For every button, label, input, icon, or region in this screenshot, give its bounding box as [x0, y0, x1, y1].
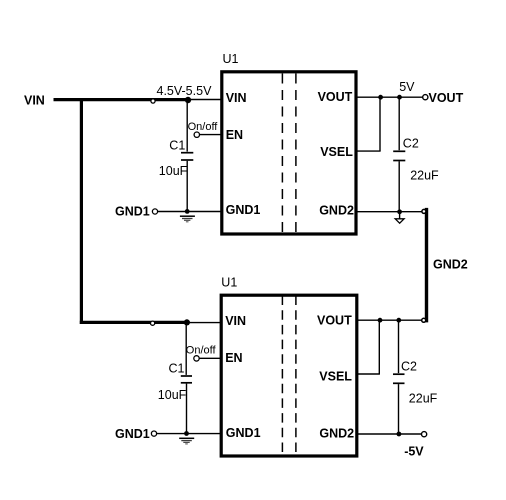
wire VOUT node down to C2 (bottom): [398, 320, 400, 373]
junction dot GND2 (top): [397, 209, 402, 214]
svg-text:VIN: VIN: [226, 91, 247, 105]
wire VOUT node down to C2 (top): [398, 97, 400, 150]
connector circle on VIN wire (bottom): [151, 321, 155, 325]
junction dot VOUT-C2 (bottom): [396, 318, 401, 323]
connector circle on VIN wire (top): [151, 99, 155, 103]
svg-text:VIN: VIN: [225, 314, 246, 328]
capacitor C2 (top) plates: [393, 150, 405, 152]
svg-text:10uF: 10uF: [158, 388, 187, 402]
dashed internal line 1 (top U1): [281, 74, 283, 233]
svg-text:-5V: -5V: [404, 444, 424, 458]
svg-text:4.5V-5.5V: 4.5V-5.5V: [157, 84, 213, 98]
capacitor C2 (bottom) plates: [393, 373, 405, 375]
svg-text:C1: C1: [169, 361, 185, 375]
svg-text:GND1: GND1: [115, 427, 150, 441]
connector circle GND2 top terminal: [422, 209, 426, 213]
ground (earth symbol, bottom C1): [179, 438, 194, 444]
ground (signal-ground triangle, top): [399, 214, 401, 219]
dashed internal line 1 (bottom U1): [281, 296, 283, 455]
junction dot VOUT-VSEL (bottom): [378, 318, 383, 323]
wire GND1 (bottom): [157, 433, 221, 435]
wire junction to VIN pin (top): [188, 99, 221, 101]
svg-text:VOUT: VOUT: [318, 90, 353, 104]
svg-text:GND2: GND2: [433, 258, 468, 272]
op-amp U1 (bottom regulator IC box): [221, 295, 357, 456]
wire VOUT pin (bottom): [357, 319, 422, 321]
wire VIN thick vertical trunk: [80, 98, 83, 324]
svg-text:GND2: GND2: [319, 203, 354, 217]
wire C1 to GND1 (bottom): [186, 384, 188, 434]
wire GND2 pin (top): [356, 211, 423, 213]
svg-text:GND1: GND1: [115, 204, 150, 218]
connector circle GND2 bottom terminal: [422, 318, 426, 322]
svg-text:On/off: On/off: [186, 345, 217, 357]
svg-text:10uF: 10uF: [159, 164, 188, 178]
wire VSEL riser to VOUT (top): [379, 97, 381, 151]
wire VSEL pin (top): [356, 150, 381, 152]
wire GND1 (top): [158, 211, 221, 213]
svg-text:GND1: GND1: [226, 426, 261, 440]
wire GND2 pin (bottom): [357, 433, 422, 435]
node B junction dot VIN (bottom): [184, 319, 190, 325]
svg-text:GND2: GND2: [319, 426, 354, 440]
wire VIN node down to C1 (bottom): [185, 322, 187, 375]
svg-text:VOUT: VOUT: [317, 314, 352, 328]
connector circle GND1 (bottom): [151, 431, 156, 436]
connector circle VOUT (top): [423, 95, 428, 100]
wire GND2 thick vertical interconnect: [425, 208, 428, 323]
junction dot VOUT-C2 (top): [397, 95, 402, 100]
svg-text:22uF: 22uF: [409, 391, 438, 405]
wire VSEL riser to VOUT (bottom): [378, 320, 380, 374]
connector circle EN (top): [194, 132, 199, 137]
capacitor C1 (bottom) plates: [181, 375, 192, 377]
svg-text:VIN: VIN: [24, 94, 45, 108]
connector circle GND1 (top): [152, 209, 157, 214]
capacitor C1 (top) plates: [181, 152, 193, 154]
wire VIN node down to C1 (top): [186, 100, 188, 152]
svg-text:C1: C1: [169, 139, 185, 153]
svg-text:C2: C2: [401, 359, 417, 373]
wire EN (bottom): [199, 357, 221, 359]
node A junction dot VIN (top): [185, 97, 191, 103]
wire VOUT pin (top): [356, 96, 423, 98]
op-amp U1 (top regulator IC box): [222, 72, 356, 234]
svg-text:VSEL: VSEL: [320, 145, 353, 159]
wire VSEL pin (bottom): [357, 373, 380, 375]
wire EN (top): [200, 134, 222, 136]
junction dot VOUT-VSEL (top): [378, 95, 383, 100]
svg-text:C2: C2: [403, 136, 419, 150]
svg-text:22uF: 22uF: [410, 168, 439, 182]
wire C2 to GND2 (bottom): [398, 384, 400, 434]
wire VIN thick horizontal (bottom): [80, 321, 189, 324]
svg-text:EN: EN: [226, 128, 243, 142]
svg-text:GND1: GND1: [226, 203, 261, 217]
connector circle -5V terminal: [422, 432, 427, 437]
connector circle EN (bottom): [194, 356, 199, 361]
junction dot GND1 (top): [185, 209, 190, 214]
wire C2 to GND2 (top): [398, 161, 400, 211]
svg-text:VOUT: VOUT: [429, 91, 464, 105]
svg-text:EN: EN: [225, 351, 242, 365]
ground (earth symbol, top C1): [180, 216, 195, 222]
wire VIN thick horizontal (top): [54, 98, 191, 101]
wire junction to VIN pin (bottom): [187, 322, 221, 324]
svg-text:On/off: On/off: [188, 121, 219, 133]
svg-text:U1: U1: [221, 276, 237, 290]
junction dot GND2-C2 (bottom): [397, 432, 402, 437]
dashed internal line 2 (top U1): [295, 74, 297, 233]
wire C1 to GND1 (top): [186, 161, 188, 212]
svg-text:5V: 5V: [399, 80, 415, 94]
junction dot GND1 (bottom): [184, 431, 189, 436]
dashed internal line 2 (bottom U1): [295, 296, 297, 455]
svg-text:U1: U1: [223, 52, 239, 66]
svg-text:VSEL: VSEL: [319, 370, 352, 384]
